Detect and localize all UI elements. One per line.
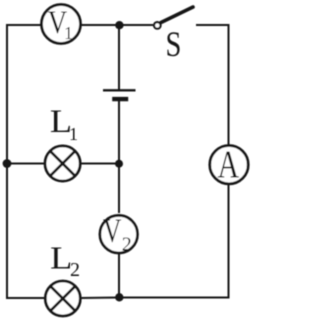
- battery cell: [103, 90, 136, 99]
- wire middle rail V2 to bottom: [118, 253, 120, 299]
- node bottom junction: [115, 293, 123, 301]
- wire L1 branch left: [7, 163, 45, 165]
- svg-text:V: V: [103, 213, 122, 250]
- voltmeter V2: [100, 213, 138, 256]
- wire right rail lower: [228, 184, 230, 299]
- wire bottom right segment: [119, 297, 230, 299]
- wire middle rail L1 junction to V2: [118, 164, 120, 214]
- switch S: [154, 7, 193, 64]
- wire right rail upper: [228, 24, 230, 146]
- svg-text:1: 1: [64, 23, 73, 43]
- wire left rail: [6, 25, 8, 298]
- svg-text:2: 2: [122, 233, 132, 255]
- lamp L1: [45, 104, 80, 181]
- svg-text:S: S: [166, 24, 182, 64]
- wire middle rail battery to L1 junction: [118, 101, 120, 164]
- wire L2 to bottom junction: [80, 297, 119, 300]
- wire switch to right rail: [196, 24, 229, 26]
- svg-text:1: 1: [69, 124, 78, 144]
- voltmeter V1: [42, 5, 81, 44]
- lamp L2: [45, 240, 80, 316]
- wire middle rail top: [118, 25, 120, 90]
- node top junction: [115, 21, 123, 29]
- ammeter A: [210, 143, 248, 186]
- wire V1 to switch: [81, 24, 153, 26]
- svg-text:A: A: [218, 143, 240, 186]
- svg-text:2: 2: [70, 259, 80, 281]
- node middle junction: [115, 160, 123, 168]
- wire top-left segment: [6, 24, 41, 26]
- wire left rail to L2: [6, 297, 44, 299]
- node left junction: [3, 159, 12, 168]
- wire L1 branch right: [80, 163, 120, 165]
